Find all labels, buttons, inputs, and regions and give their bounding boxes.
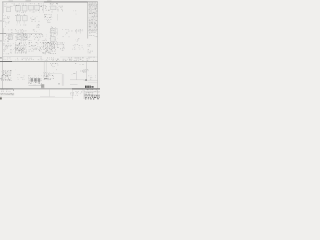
junction cluster <box>83 69 88 73</box>
label row right mid <box>71 29 83 31</box>
labels above bus A right <box>33 30 40 32</box>
transformer T1 cluster <box>28 76 42 86</box>
drawing number row <box>85 95 100 99</box>
wire pair bottom mid <box>62 74 64 86</box>
IC U13 <box>16 16 21 24</box>
IC U16 box <box>51 29 56 33</box>
IC U11 cluster <box>42 42 56 54</box>
IC U7 box <box>17 34 21 39</box>
IC U12 cluster <box>57 43 65 51</box>
IC U17 box <box>51 37 56 42</box>
header text above border <box>9 0 52 2</box>
title row 1 <box>86 90 96 92</box>
paper edge line <box>0 96 73 98</box>
net line right <box>60 56 98 58</box>
IC U15 box <box>9 35 13 40</box>
notes block <box>1 70 11 81</box>
footer text left <box>1 90 10 92</box>
capacitor C30 group <box>87 44 93 53</box>
notes side specks <box>11 70 16 72</box>
connector P1 pins <box>42 6 52 12</box>
blob dark edge <box>41 84 44 87</box>
label right of drop <box>75 63 84 65</box>
power section cluster <box>43 62 54 80</box>
wire horizontal y80 <box>70 79 85 81</box>
IC U6 cluster <box>44 14 52 22</box>
footer scale text <box>75 90 83 92</box>
resistor network RN1 <box>40 5 46 10</box>
fold line horizontal <box>40 96 55 98</box>
IC U7 cluster <box>15 33 27 41</box>
speck bottom mid <box>58 83 60 84</box>
analog section left <box>3 44 14 55</box>
labels above bus A mid <box>15 29 26 33</box>
logic group mid right <box>62 29 70 37</box>
IC U14 <box>23 16 27 24</box>
main bus wire <box>2 60 97 62</box>
bus wire A <box>2 33 42 35</box>
junction J5 <box>85 79 87 81</box>
IC U10 cluster <box>28 42 42 52</box>
pin row under U3 U4 <box>32 10 40 12</box>
wire vertical x76 <box>76 71 78 80</box>
transformer base line <box>29 84 45 86</box>
wire pair mid <box>51 26 53 42</box>
wire x57 <box>57 28 59 35</box>
wire left vertical <box>3 28 5 42</box>
component D1 <box>52 66 57 70</box>
wire to U5 <box>42 2 44 13</box>
footer band left <box>0 93 14 95</box>
zone label E <box>0 78 1 79</box>
top border dark segment <box>44 1 88 3</box>
label below bus <box>50 63 58 65</box>
label row bottom right <box>72 73 76 75</box>
connector J1 <box>4 3 12 12</box>
part number 2331 <box>85 86 94 88</box>
capacitor C1 group <box>57 6 63 11</box>
IC U8 cluster <box>29 34 47 41</box>
zone label B <box>0 20 1 21</box>
connector J2 block <box>3 15 10 22</box>
labels above U13 <box>15 14 25 16</box>
title row 2 <box>85 92 93 94</box>
bus wire A dark end <box>0 33 6 35</box>
label far right <box>88 76 96 80</box>
zone label D <box>0 57 1 58</box>
IC U7b box <box>23 34 27 39</box>
logic group mid <box>50 27 58 45</box>
component group right-bottom <box>81 70 85 72</box>
footer text centre-right <box>70 92 86 96</box>
lower margin strip <box>0 89 100 100</box>
title block lines <box>84 89 100 99</box>
IC U3 <box>29 5 34 12</box>
wire horizontal right 2 <box>88 81 98 83</box>
wire stub mid <box>57 14 59 21</box>
wire left input <box>3 2 5 13</box>
wire horizontal right <box>84 79 98 81</box>
label row top right <box>50 3 58 5</box>
resistor R20 group <box>75 38 79 41</box>
margin specks bottom right <box>98 92 100 98</box>
net labels row <box>3 57 96 61</box>
wire horizontal y84 <box>70 84 78 86</box>
passives group right <box>72 44 84 50</box>
main bus dark segment <box>0 61 12 63</box>
relay K1 group <box>17 74 25 80</box>
wire pair right <box>76 29 80 34</box>
IC U5 <box>51 6 56 10</box>
label row top mid <box>28 3 42 5</box>
IC U4 <box>35 5 40 12</box>
zone label C <box>0 40 1 41</box>
border frame <box>2 2 97 89</box>
label row top left <box>14 4 28 6</box>
revision table entries <box>88 2 97 37</box>
fold line vertical 2 <box>72 89 74 99</box>
IC U2 <box>22 6 27 13</box>
resistor bank R10 <box>5 35 14 42</box>
IC U1 <box>16 6 21 13</box>
net label line <box>2 56 42 58</box>
component blob right mid <box>73 11 76 15</box>
top border right segment <box>88 1 98 3</box>
bottom border dark left <box>0 88 13 90</box>
paper area <box>0 0 100 89</box>
sheet background <box>0 0 100 100</box>
pin row under U1 U2 <box>17 11 24 13</box>
resistor R5 group <box>37 24 40 28</box>
left notes small <box>5 23 9 27</box>
labels above bus A left <box>8 30 12 33</box>
revision table border <box>87 2 89 39</box>
top border left segment <box>2 1 44 3</box>
wire horizontal y73 <box>50 73 62 75</box>
discrete group Q1 <box>30 16 39 22</box>
net label text calibration <box>31 58 48 60</box>
fold line vertical <box>49 89 51 96</box>
corner mark <box>0 97 2 100</box>
footer tick <box>13 89 15 91</box>
IC U9 cluster <box>15 43 27 54</box>
bottom border line <box>0 88 100 90</box>
bottom border dark right <box>72 88 100 90</box>
component blob bottom <box>41 84 44 88</box>
wire right drop <box>86 62 88 81</box>
pin labels row2 <box>16 24 27 27</box>
